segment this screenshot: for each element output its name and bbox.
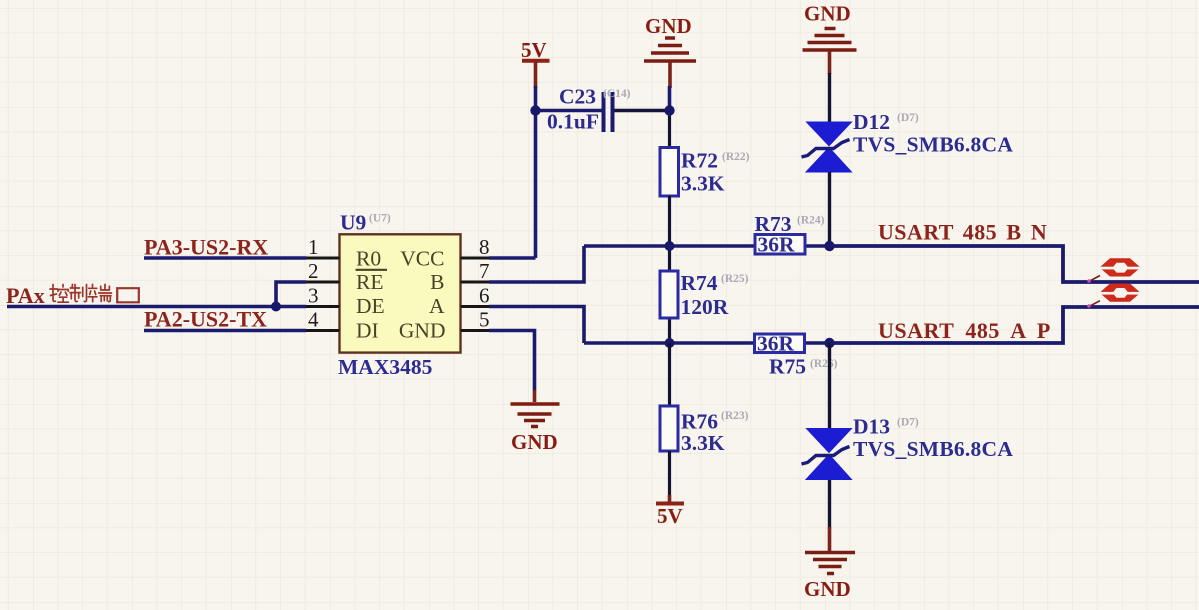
junction D13/bus <box>824 338 834 348</box>
wire PA3-US2-RX to pin 1 <box>144 256 306 260</box>
svg-text:3: 3 <box>308 284 319 308</box>
wire PAx port to pins 2/3 <box>7 282 306 307</box>
wire D13 to bus <box>828 343 831 428</box>
svg-text:4: 4 <box>308 308 319 332</box>
svg-text:TVS_SMB6.8CA: TVS_SMB6.8CA <box>853 133 1013 157</box>
svg-text:DE: DE <box>356 294 385 318</box>
pin 3 <box>305 284 340 308</box>
pin 7 <box>461 259 491 283</box>
svg-text:5: 5 <box>479 308 490 332</box>
glyph zhi <box>70 285 87 302</box>
wire pin 8 to 5V rail <box>489 256 536 260</box>
junction at pin3 tie <box>271 302 281 312</box>
svg-text:GND: GND <box>804 2 851 26</box>
resistor R72 <box>660 148 750 197</box>
svg-text:R72: R72 <box>681 149 718 173</box>
svg-text:36R: 36R <box>757 332 795 356</box>
junction D12/bus <box>824 241 834 251</box>
junction R72/R74/bus <box>665 241 675 251</box>
svg-text:3.3K: 3.3K <box>681 431 725 455</box>
svg-text:VCC: VCC <box>400 247 444 271</box>
svg-text:D13: D13 <box>853 415 890 439</box>
wire D13 to ground <box>828 480 831 529</box>
wire PA2-US2-TX to pin 4 <box>144 329 306 333</box>
svg-text:(D7): (D7) <box>897 417 919 429</box>
net label PAx control port (CJK drawn as paths) <box>6 283 139 308</box>
svg-text:GND: GND <box>645 14 692 38</box>
wire pin 5 to ground <box>489 331 535 392</box>
junction node at gnd rail <box>664 105 674 115</box>
svg-text:RE: RE <box>356 270 383 294</box>
svg-text:7: 7 <box>479 259 490 283</box>
junction R74/R76/bus <box>665 338 675 348</box>
svg-text:R0: R0 <box>356 247 381 271</box>
svg-text:USART 485 B N: USART 485 B N <box>878 220 1047 245</box>
resistor R73 <box>755 212 825 257</box>
wire D12 to bus <box>828 172 831 246</box>
svg-text:GND: GND <box>399 319 446 343</box>
svg-text:A: A <box>429 294 445 318</box>
svg-text:(R25): (R25) <box>721 273 749 285</box>
svg-text:(R26): (R26) <box>810 358 838 370</box>
svg-text:3.3K: 3.3K <box>681 172 725 196</box>
svg-text:C23: C23 <box>559 85 596 109</box>
svg-text:TVS_SMB6.8CA: TVS_SMB6.8CA <box>853 437 1013 461</box>
svg-text:5V: 5V <box>521 38 547 62</box>
pin 4 <box>305 308 340 332</box>
capacitor C23 <box>537 85 668 134</box>
pin 6 <box>461 284 491 308</box>
svg-text:GND: GND <box>511 430 558 454</box>
power 5V (bottom) <box>656 495 684 528</box>
svg-text:6: 6 <box>479 284 490 308</box>
svg-text:(U7): (U7) <box>369 213 391 225</box>
svg-text:R75: R75 <box>769 355 806 379</box>
junction node at 5V rail <box>530 105 540 115</box>
svg-text:120R: 120R <box>681 295 729 319</box>
wire gnd rail down to C23 node <box>668 86 672 112</box>
resistor R75 <box>755 332 838 379</box>
wire A line right jog <box>830 307 1199 343</box>
wire gnd to D12 <box>828 73 831 122</box>
ground GND (chip, bottom middle) <box>511 390 560 454</box>
pin 1 <box>305 235 340 259</box>
svg-text:PAx: PAx <box>6 283 45 308</box>
svg-text:GND: GND <box>804 577 851 601</box>
ground GND (top right) <box>803 2 857 75</box>
wire 5V rail to pin 8 <box>534 86 538 258</box>
svg-text:MAX3485: MAX3485 <box>338 355 432 379</box>
power 5V (top) <box>521 38 550 88</box>
svg-text:B: B <box>430 270 444 294</box>
svg-text:U9: U9 <box>340 211 366 235</box>
svg-text:PA3-US2-RX: PA3-US2-RX <box>144 235 268 260</box>
svg-text:0.1uF: 0.1uF <box>547 110 599 134</box>
pin 2 <box>305 259 340 283</box>
svg-text:(R24): (R24) <box>797 215 825 227</box>
ground GND (bottom right) <box>804 527 855 601</box>
wire B line: pin 7 jog up to bus <box>489 246 830 282</box>
wire B line right jog <box>830 246 1199 282</box>
svg-text:(R23): (R23) <box>721 410 749 422</box>
svg-text:PA2-US2-TX: PA2-US2-TX <box>144 307 267 332</box>
diode D13 TVS <box>802 415 1014 480</box>
svg-text:(D7): (D7) <box>897 112 919 124</box>
svg-text:(C14): (C14) <box>603 88 631 100</box>
ground GND (top left) <box>644 14 696 88</box>
svg-text:D12: D12 <box>853 110 890 134</box>
pin 8 <box>461 235 491 259</box>
pin 5 <box>461 308 491 332</box>
glyph kong <box>50 285 69 303</box>
IC U9 MAX3485 <box>338 211 461 380</box>
svg-text:R76: R76 <box>681 410 718 434</box>
svg-text:8: 8 <box>479 235 490 259</box>
diode D12 TVS <box>802 110 1014 172</box>
svg-text:2: 2 <box>308 259 319 283</box>
svg-text:36R: 36R <box>758 233 796 257</box>
svg-text:1: 1 <box>308 235 319 259</box>
wire R72 to bus node <box>668 196 671 246</box>
wire node to resistor R72 <box>668 110 671 148</box>
differential pair directive (upper) <box>1087 258 1142 283</box>
svg-text:USART 485 A P: USART 485 A P <box>878 318 1051 343</box>
wire A line: pin 6 jog down to bus <box>489 307 830 344</box>
differential pair directive (lower) <box>1087 284 1142 308</box>
svg-text:5V: 5V <box>657 504 683 528</box>
glyph duan <box>88 284 111 302</box>
resistor R76 <box>660 343 749 497</box>
svg-text:(R22): (R22) <box>722 151 750 163</box>
resistor R74 <box>660 246 749 343</box>
svg-text:DI: DI <box>356 319 379 343</box>
glyph kou <box>117 288 139 302</box>
svg-text:R74: R74 <box>681 271 718 295</box>
